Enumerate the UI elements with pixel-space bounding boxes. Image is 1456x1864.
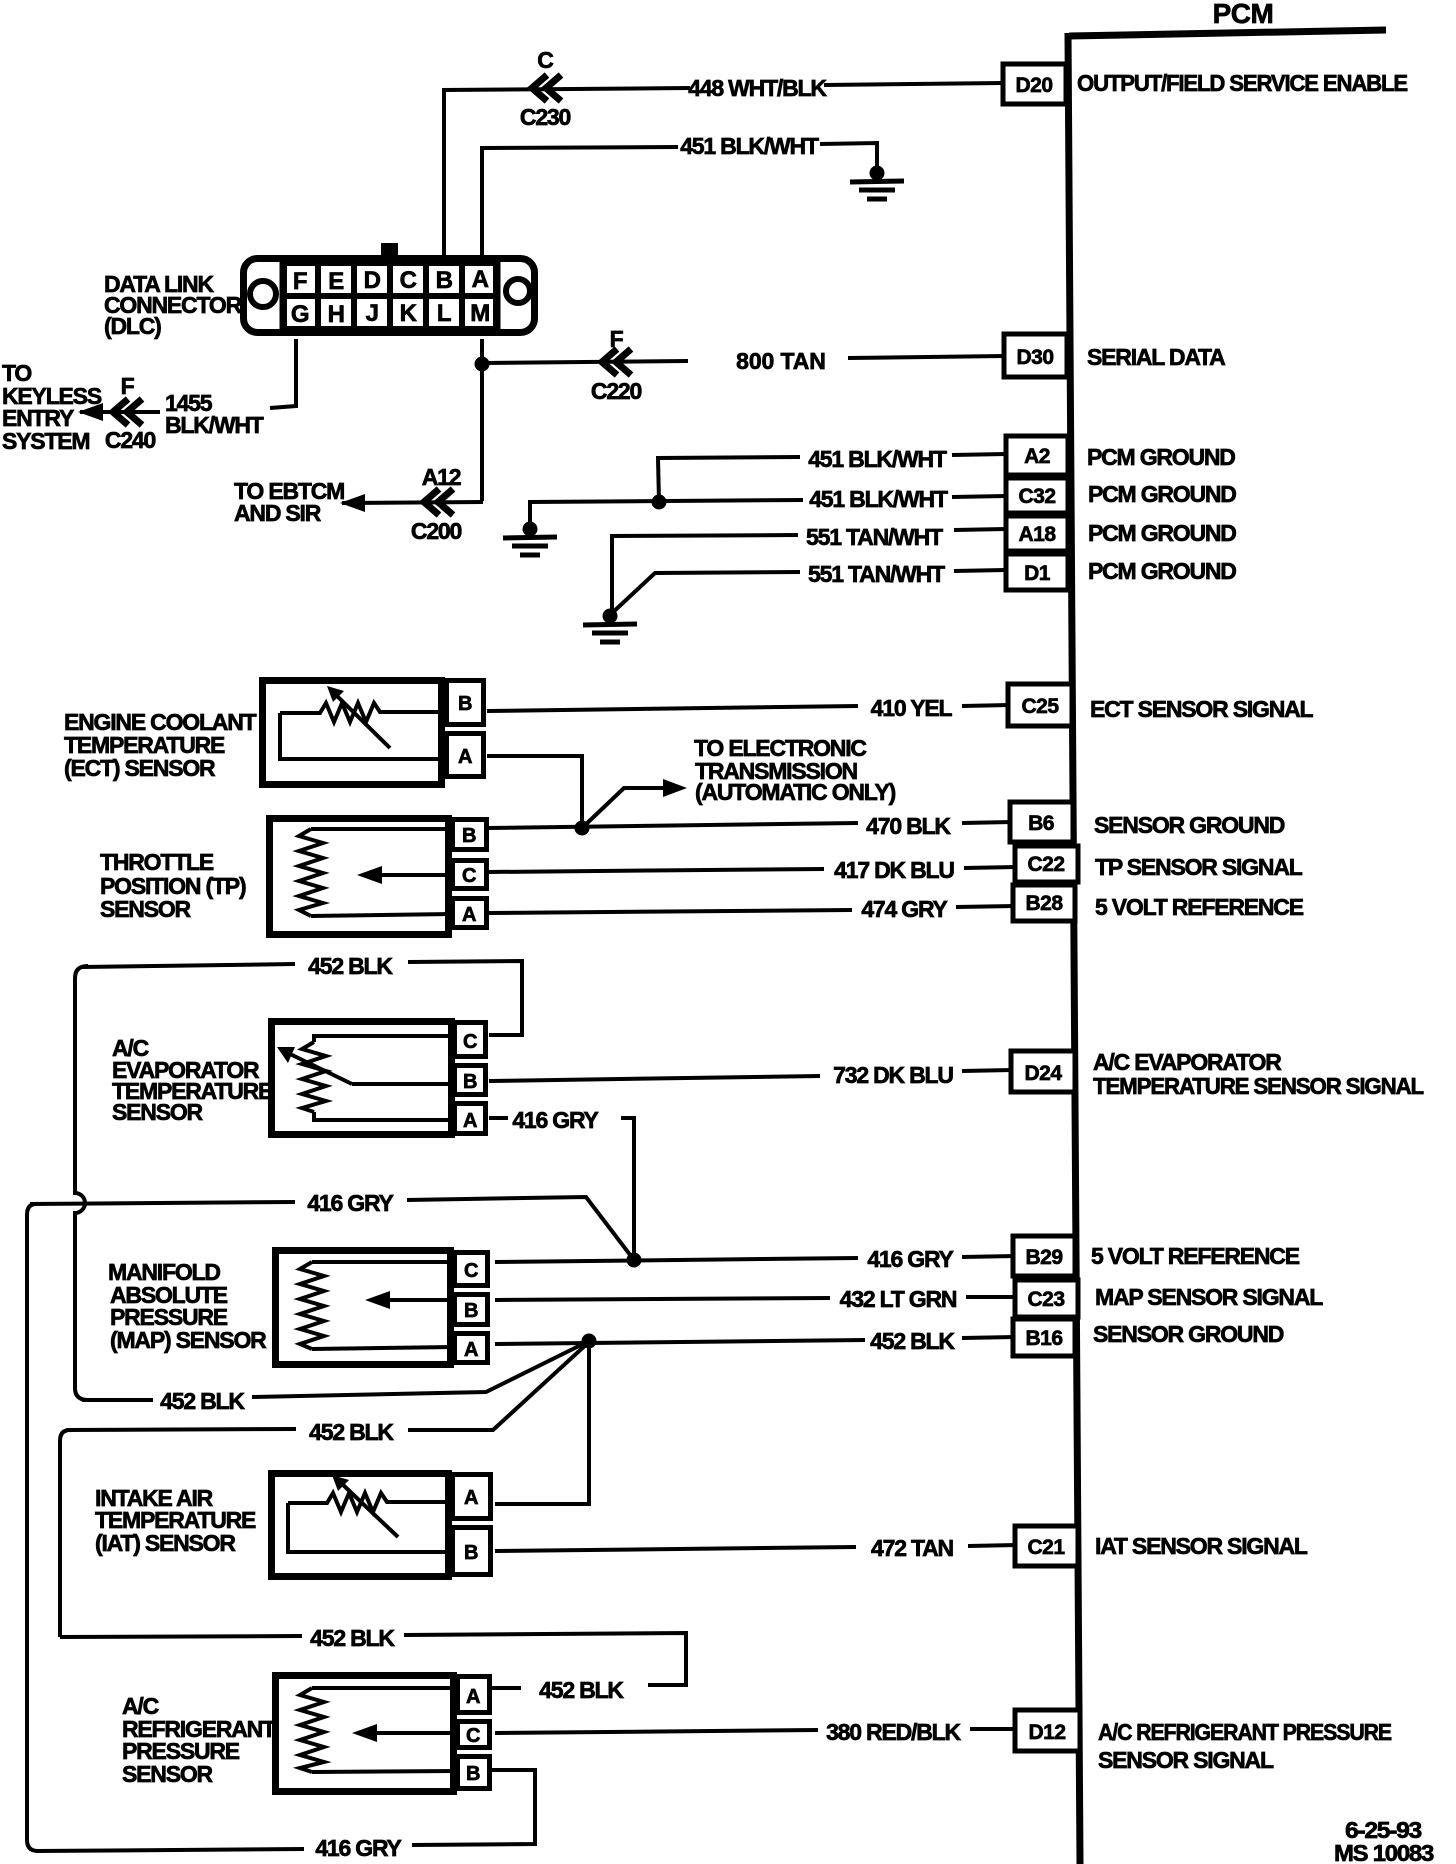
- svg-text:A: A: [464, 1339, 478, 1361]
- PCM pin C23: [1015, 1280, 1078, 1317]
- wire 451 BLK/WHT into C32: [952, 496, 1006, 497]
- ECT variable arrowhead: [327, 686, 344, 702]
- svg-text:G: G: [291, 301, 309, 328]
- svg-text:452 BLK: 452 BLK: [310, 1625, 395, 1651]
- svg-text:417 DK BLU: 417 DK BLU: [834, 857, 954, 883]
- svg-text:551 TAN/WHT: 551 TAN/WHT: [806, 524, 943, 550]
- svg-text:SENSOR GROUND: SENSOR GROUND: [1093, 1321, 1284, 1347]
- DLC left mounting hole: [250, 281, 276, 307]
- svg-text:SENSOR GROUND: SENSOR GROUND: [1094, 812, 1285, 838]
- connector C230 chevron: [532, 75, 561, 101]
- svg-text:F: F: [121, 373, 135, 399]
- svg-text:THROTTLE: THROTTLE: [100, 849, 214, 875]
- svg-text:K: K: [400, 300, 418, 327]
- PCM pin C22: [1015, 846, 1078, 882]
- PCM pin D12: [1015, 1710, 1080, 1751]
- IAT thermistor resistor: [288, 1493, 452, 1512]
- svg-text:B: B: [463, 1071, 477, 1093]
- connector C220 chevron: [602, 349, 631, 375]
- TP potentiometer zigzag: [299, 829, 323, 916]
- svg-text:J: J: [366, 300, 379, 327]
- PCM pin B28: [1013, 885, 1075, 921]
- ECT variable arrow: [334, 693, 390, 748]
- IAT pin B cell: [453, 1528, 491, 1575]
- wire 416 GRY evap A right segment down to junction: [621, 1118, 634, 1258]
- svg-text:B29: B29: [1025, 1246, 1062, 1269]
- ECT sensor box: [263, 681, 442, 785]
- PCM pin C21: [1015, 1526, 1078, 1566]
- svg-text:380 RED/BLK: 380 RED/BLK: [826, 1719, 961, 1745]
- wire to EBTCM and SIR: [342, 502, 483, 503]
- EVAP bottom wire to pin A: [314, 1112, 454, 1120]
- svg-text:C220: C220: [591, 378, 642, 404]
- svg-text:C22: C22: [1027, 853, 1064, 876]
- DLC index tab: [381, 243, 398, 257]
- MAP pin C cell: [455, 1253, 488, 1286]
- ECT thermistor resistor: [280, 703, 446, 722]
- svg-text:B: B: [466, 1763, 480, 1785]
- svg-text:A: A: [466, 1686, 480, 1708]
- svg-text:A: A: [464, 1487, 478, 1509]
- wire 416 GRY from MAP C through junction: [495, 1258, 858, 1262]
- PCM pin B29: [1013, 1236, 1075, 1276]
- svg-text:432 LT GRN: 432 LT GRN: [840, 1286, 957, 1312]
- REFRIG top wire to pin A: [312, 1686, 457, 1690]
- PCM pin A18: [1006, 516, 1068, 551]
- svg-text:416 GRY: 416 GRY: [315, 1835, 401, 1861]
- wire 551 TAN/WHT to D1: [611, 572, 800, 614]
- PCM main vertical line: [1068, 33, 1080, 1864]
- svg-text:F: F: [293, 268, 307, 295]
- svg-text:BLK/WHT: BLK/WHT: [165, 412, 264, 438]
- TP pin A cell: [453, 899, 487, 928]
- svg-text:474 GRY: 474 GRY: [861, 896, 947, 922]
- svg-text:451 BLK/WHT: 451 BLK/WHT: [680, 133, 819, 159]
- svg-text:410 YEL: 410 YEL: [871, 695, 953, 721]
- DLC pin grid: [284, 263, 496, 329]
- svg-text:A: A: [472, 266, 489, 293]
- REFRIG pin A cell: [458, 1677, 490, 1713]
- REFRIG pin B cell: [458, 1757, 490, 1789]
- svg-text:5 VOLT REFERENCE: 5 VOLT REFERENCE: [1095, 894, 1304, 920]
- junction 451 BLK/WHT: [652, 495, 667, 510]
- MAP pin B cell: [455, 1295, 488, 1325]
- wire 416 GRY from REFRIG B down: [412, 1770, 535, 1845]
- wire 416 GRY middle row: [30, 1202, 295, 1204]
- wire stub to ground 2: [528, 500, 532, 524]
- svg-text:MAP SENSOR SIGNAL: MAP SENSOR SIGNAL: [1095, 1284, 1323, 1310]
- wire 432 LT GRN from MAP B: [495, 1298, 830, 1300]
- wire 416 GRY into B29: [962, 1256, 1015, 1257]
- wire 800 TAN into D30: [848, 356, 1004, 358]
- PCM pin D20: [1003, 64, 1066, 104]
- svg-text:SENSOR: SENSOR: [112, 1099, 204, 1125]
- wire 732 DK BLU from EVAP B: [489, 1076, 820, 1081]
- wire 470 BLK from TP B through junction: [487, 823, 858, 828]
- svg-text:PCM: PCM: [1213, 0, 1274, 29]
- wire 452 BLK second row: [66, 1429, 296, 1430]
- svg-text:B: B: [436, 267, 453, 294]
- svg-text:MS 10083: MS 10083: [1334, 1840, 1433, 1864]
- svg-text:A/C REFRIGERANT PRESSURE: A/C REFRIGERANT PRESSURE: [1098, 1719, 1392, 1745]
- svg-text:SENSOR SIGNAL: SENSOR SIGNAL: [1098, 1747, 1274, 1773]
- wire 452 BLK third row: [60, 1636, 302, 1637]
- REFRIG element zigzag: [300, 1688, 324, 1772]
- svg-text:A12: A12: [422, 464, 461, 490]
- arrow line to electronic transmission: [582, 788, 668, 828]
- svg-text:448 WHT/BLK: 448 WHT/BLK: [688, 75, 827, 101]
- TP sensor box: [270, 819, 449, 935]
- svg-text:452 BLK: 452 BLK: [160, 1388, 245, 1414]
- wire 380 RED/BLK from REFRIG C: [495, 1730, 818, 1733]
- svg-text:D30: D30: [1016, 346, 1053, 369]
- svg-text:PCM GROUND: PCM GROUND: [1087, 444, 1235, 470]
- svg-text:C: C: [400, 267, 417, 294]
- svg-text:IAT SENSOR SIGNAL: IAT SENSOR SIGNAL: [1095, 1533, 1308, 1559]
- svg-text:452 BLK: 452 BLK: [539, 1677, 624, 1703]
- svg-text:452 BLK: 452 BLK: [309, 1419, 394, 1445]
- svg-text:A18: A18: [1018, 523, 1056, 546]
- wire 551 TAN/WHT into A18: [954, 529, 1006, 530]
- svg-text:C240: C240: [105, 427, 156, 453]
- ground for 451 BLK/WHT pair: [503, 522, 557, 556]
- TP pin C cell: [453, 861, 487, 889]
- data link connector DLC outer shell: [244, 259, 535, 333]
- svg-text:C200: C200: [411, 518, 462, 544]
- TP top wire to pin B: [311, 827, 452, 831]
- svg-text:(MAP) SENSOR: (MAP) SENSOR: [110, 1327, 267, 1353]
- svg-text:TEMPERATURE SENSOR SIGNAL: TEMPERATURE SENSOR SIGNAL: [1093, 1073, 1424, 1099]
- arrowhead to electronic transmission: [663, 779, 687, 797]
- svg-text:C230: C230: [520, 104, 571, 130]
- svg-text:452 BLK: 452 BLK: [308, 953, 393, 979]
- IAT sensor box: [272, 1474, 449, 1577]
- wire 448 WHT/BLK right segment into D20: [824, 83, 1003, 85]
- svg-text:451 BLK/WHT: 451 BLK/WHT: [809, 486, 948, 512]
- wire 451 BLK/WHT to C32: [530, 500, 803, 502]
- svg-text:H: H: [328, 301, 345, 328]
- MAP pin A cell: [455, 1334, 488, 1363]
- wire 416 GRY far left vertical: [27, 1204, 38, 1851]
- REFRIG wiper arrowhead: [352, 1724, 377, 1742]
- REFRIG pin C cell: [458, 1722, 490, 1748]
- EVAP variable arrow: [290, 1054, 352, 1084]
- svg-text:416 GRY: 416 GRY: [512, 1107, 598, 1133]
- wire 472 TAN from IAT B: [495, 1547, 856, 1551]
- svg-text:B: B: [464, 1300, 478, 1322]
- wire 800 TAN from DLC pin M down: [480, 339, 484, 501]
- IAT pin A cell: [453, 1475, 491, 1519]
- wire 452 BLK diagonal to junction: [252, 1341, 589, 1397]
- svg-text:B28: B28: [1025, 892, 1063, 915]
- MAP wiper arrowhead: [365, 1291, 390, 1309]
- svg-text:SENSOR: SENSOR: [100, 896, 192, 922]
- MAP sensor box: [276, 1251, 451, 1365]
- wire ECT A to junction: [487, 756, 582, 826]
- TP bottom wire to pin A: [311, 914, 452, 916]
- svg-text:(AUTOMATIC ONLY): (AUTOMATIC ONLY): [695, 779, 896, 805]
- connector C240 chevron: [113, 399, 142, 425]
- ECT thermistor loop to pin A: [280, 713, 446, 759]
- TP pin B cell: [453, 820, 487, 850]
- DLC right divider: [496, 259, 501, 332]
- svg-text:AND SIR: AND SIR: [234, 500, 322, 526]
- svg-text:C: C: [537, 47, 553, 73]
- svg-text:472 TAN: 472 TAN: [871, 1535, 954, 1561]
- MAP element zigzag: [300, 1262, 324, 1349]
- svg-text:B: B: [462, 825, 476, 847]
- PCM pin D24: [1011, 1051, 1075, 1092]
- svg-text:C21: C21: [1027, 1536, 1065, 1559]
- svg-text:PCM GROUND: PCM GROUND: [1088, 558, 1236, 584]
- wire 1455 BLK/WHT from DLC pin G: [270, 339, 296, 408]
- wire 474 GRY into B28: [956, 906, 1015, 907]
- svg-text:D12: D12: [1028, 1721, 1065, 1744]
- wire 452 BLK from MAP A through junction: [495, 1340, 865, 1344]
- wire 452 BLK top right segment to evap C: [408, 961, 522, 1035]
- MAP wiper arrow line: [380, 1298, 454, 1302]
- wire 417 DK BLU into C22: [964, 867, 1017, 868]
- MAP top wire to pin C: [312, 1260, 454, 1264]
- REFRIG bottom wire to pin B: [312, 1771, 457, 1772]
- TP wiper arrow line: [372, 873, 452, 877]
- wire 452 BLK into B16: [962, 1337, 1015, 1338]
- EVAP thermistor zigzag: [302, 1042, 326, 1112]
- EVAP pin B cell: [455, 1066, 486, 1095]
- junction 452 BLK node: [582, 1334, 597, 1349]
- wire 417 DK BLU from TP C: [487, 869, 824, 872]
- svg-text:732 DK BLU: 732 DK BLU: [833, 1062, 953, 1088]
- PCM pin C25: [1008, 684, 1072, 726]
- wire 432 LT GRN into C23: [966, 1295, 1017, 1299]
- junction 800 TAN: [475, 357, 490, 372]
- EVAP pin A cell: [455, 1104, 486, 1134]
- svg-text:A: A: [458, 746, 472, 768]
- ground for 551 TAN/WHT pair: [583, 609, 637, 643]
- wire 416 GRY middle right segment diagonal to junction: [407, 1197, 634, 1260]
- wire IAT A to junction vertical: [495, 1341, 589, 1504]
- wire 551 TAN/WHT into D1: [954, 570, 1006, 571]
- svg-text:B: B: [458, 693, 472, 715]
- connector C200 chevron: [424, 489, 453, 515]
- svg-text:C32: C32: [1018, 485, 1055, 508]
- wire 452 BLK second row diagonal to junction: [408, 1342, 589, 1430]
- svg-text:B: B: [464, 1542, 478, 1564]
- svg-text:A: A: [462, 904, 476, 926]
- PCM pin B6: [1010, 802, 1073, 842]
- wire 451 BLK/WHT to A2 left segment: [658, 457, 800, 502]
- svg-text:C: C: [463, 1031, 477, 1053]
- wire 452 BLK dash to refrig A: [492, 1686, 521, 1690]
- svg-text:800 TAN: 800 TAN: [736, 348, 826, 374]
- wire 416 GRY bottom left segment: [36, 1849, 304, 1851]
- svg-text:B16: B16: [1025, 1327, 1062, 1350]
- svg-text:451 BLK/WHT: 451 BLK/WHT: [808, 446, 947, 472]
- wire 452 BLK top row left segment: [75, 966, 88, 1400]
- svg-text:SYSTEM: SYSTEM: [2, 428, 89, 454]
- A/C refrigerant pressure sensor box: [276, 1676, 454, 1792]
- REFRIG wiper arrow line: [367, 1731, 457, 1735]
- svg-text:L: L: [437, 300, 451, 327]
- svg-text:470 BLK: 470 BLK: [866, 813, 951, 839]
- PCM pin D1: [1006, 554, 1068, 590]
- wire 451 BLK/WHT right segment to ground: [820, 143, 877, 168]
- svg-text:(DLC): (DLC): [104, 313, 161, 339]
- DLC right mounting hole: [506, 279, 530, 303]
- svg-text:OUTPUT/FIELD SERVICE ENABLE: OUTPUT/FIELD SERVICE ENABLE: [1077, 70, 1408, 96]
- wire to keyless entry with arrow: [80, 410, 160, 414]
- svg-text:551 TAN/WHT: 551 TAN/WHT: [808, 561, 945, 587]
- svg-text:452 BLK: 452 BLK: [870, 1328, 955, 1354]
- svg-text:C23: C23: [1027, 1288, 1064, 1311]
- svg-text:C: C: [464, 1260, 478, 1282]
- wire 452 BLK second row left corner: [60, 1430, 70, 1637]
- wire 551 TAN/WHT to A18: [612, 535, 798, 612]
- PCM pin D30: [1004, 334, 1067, 377]
- wire 452 BLK row below MAP: [82, 1398, 153, 1402]
- svg-text:TP SENSOR SIGNAL: TP SENSOR SIGNAL: [1095, 854, 1303, 880]
- svg-text:SERIAL DATA: SERIAL DATA: [1087, 344, 1225, 370]
- arrow to keyless entry: [78, 403, 103, 421]
- svg-text:D: D: [364, 267, 381, 294]
- MAP bottom wire to pin A: [312, 1347, 454, 1349]
- wire 472 TAN into C21: [968, 1545, 1017, 1546]
- PCM pin B16: [1013, 1319, 1075, 1356]
- PCM pin C32: [1006, 478, 1068, 513]
- wire 451 BLK/WHT into A2: [952, 454, 1006, 455]
- wire 448 WHT/BLK from DLC pin B up and right to D20: [444, 88, 690, 257]
- wire 732 DK BLU into D24: [962, 1070, 1012, 1071]
- svg-text:C: C: [462, 865, 476, 887]
- svg-text:PCM GROUND: PCM GROUND: [1088, 520, 1236, 546]
- svg-text:D1: D1: [1024, 562, 1051, 585]
- IAT variable arrowhead: [332, 1475, 349, 1491]
- PCM pin A2: [1006, 436, 1068, 475]
- wire 451 BLK/WHT from DLC pin A up and right: [482, 147, 678, 257]
- svg-text:PCM GROUND: PCM GROUND: [1088, 481, 1236, 507]
- ground for 451 BLK/WHT: [850, 166, 904, 200]
- svg-text:A: A: [463, 1110, 477, 1132]
- junction 416 GRY node: [627, 1253, 642, 1268]
- PCM top edge line: [1069, 30, 1386, 36]
- wire 410 YEL from ECT B: [487, 706, 858, 711]
- EVAP pin C cell: [455, 1023, 486, 1057]
- svg-text:A/C EVAPORATOR: A/C EVAPORATOR: [1093, 1049, 1282, 1075]
- svg-text:C: C: [466, 1725, 480, 1747]
- wire 452 BLK top to label: [82, 964, 295, 967]
- DLC left divider: [280, 259, 285, 332]
- svg-text:416 GRY: 416 GRY: [867, 1246, 953, 1272]
- svg-text:(ECT) SENSOR: (ECT) SENSOR: [64, 755, 216, 781]
- svg-text:E: E: [328, 268, 344, 295]
- svg-text:SENSOR: SENSOR: [122, 1761, 214, 1787]
- svg-text:F: F: [610, 326, 624, 352]
- svg-text:C25: C25: [1021, 695, 1059, 718]
- svg-text:A2: A2: [1024, 445, 1050, 468]
- wire 416 GRY dash from EVAP A: [489, 1116, 508, 1120]
- wire 452 BLK third row right segment: [404, 1633, 686, 1685]
- wire 474 GRY from TP A: [487, 910, 852, 913]
- ECT pin A cell: [447, 734, 484, 777]
- ECT pin B cell: [447, 681, 484, 725]
- arrow to EBTCM: [340, 494, 365, 512]
- svg-text:ECT SENSOR SIGNAL: ECT SENSOR SIGNAL: [1090, 696, 1314, 722]
- wire 800 TAN to C220: [482, 361, 688, 363]
- svg-text:D24: D24: [1024, 1062, 1062, 1085]
- IAT thermistor loop to pin B: [288, 1503, 452, 1552]
- wire 380 RED/BLK into D12: [970, 1727, 1017, 1731]
- wire 410 YEL into C25: [962, 705, 1010, 706]
- EVAP variable arrowhead: [277, 1047, 295, 1063]
- TP wiper arrowhead: [357, 866, 382, 884]
- svg-text:B6: B6: [1028, 812, 1054, 835]
- svg-text:M: M: [470, 300, 490, 327]
- wire 470 BLK into B6: [962, 822, 1012, 823]
- svg-text:5 VOLT REFERENCE: 5 VOLT REFERENCE: [1091, 1243, 1300, 1269]
- svg-text:(IAT) SENSOR: (IAT) SENSOR: [95, 1530, 236, 1556]
- IAT variable arrow: [340, 1482, 398, 1537]
- EVAP top wire to pin C: [314, 1036, 454, 1042]
- A/C evaporator temperature sensor box: [272, 1022, 452, 1135]
- EVAP wiper wire to pin B: [352, 1082, 454, 1086]
- svg-text:416 GRY: 416 GRY: [307, 1190, 393, 1216]
- svg-text:D20: D20: [1015, 74, 1052, 97]
- junction sensor ground node: [575, 821, 590, 836]
